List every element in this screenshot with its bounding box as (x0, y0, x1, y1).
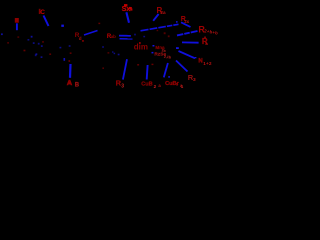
svg-text:3: 3 (121, 84, 124, 90)
svg-text:CuBr: CuBr (165, 81, 179, 87)
svg-text:dim: dim (134, 43, 148, 52)
svg-text:B: B (75, 83, 80, 89)
svg-text:d: d (79, 36, 82, 41)
svg-text:C: C (40, 9, 45, 16)
svg-text:CuB: CuB (141, 82, 153, 88)
svg-text:ab: ab (111, 34, 116, 39)
svg-text:2x: 2x (184, 19, 189, 24)
svg-text:1+2: 1+2 (203, 61, 212, 66)
svg-text:N: N (198, 59, 202, 65)
svg-text:2a: 2a (160, 10, 166, 15)
svg-text:3: 3 (193, 77, 196, 83)
